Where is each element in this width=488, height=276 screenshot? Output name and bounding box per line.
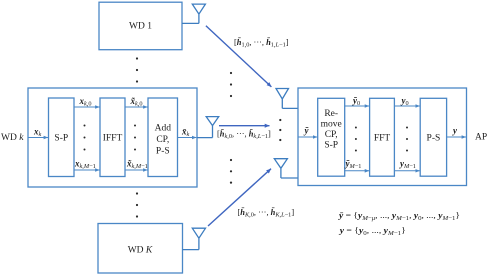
svg-text:move: move xyxy=(321,120,342,130)
svg-text:WD K: WD K xyxy=(128,246,153,256)
antenna WDK xyxy=(183,228,206,249)
block WD k outer xyxy=(28,88,197,187)
svg-text:[h̄k,0, ···, h̄k,L−1]: [h̄k,0, ···, h̄k,L−1] xyxy=(217,129,271,140)
wire S-P to IFFT top xyxy=(74,106,100,108)
svg-text:xk,M−1: xk,M−1 xyxy=(74,159,96,171)
dots between WD1 and WDk box xyxy=(136,57,138,82)
svg-text:xk: xk xyxy=(33,127,42,139)
wire IFFT to AddCP bottom xyxy=(125,169,148,171)
antenna AP top xyxy=(276,89,298,109)
svg-text:[h̄K,0, ···, h̄K,L−1]: [h̄K,0, ···, h̄K,L−1] xyxy=(238,207,295,218)
block P-S xyxy=(420,98,446,176)
dots between WDk box and WDK xyxy=(136,192,138,217)
wire S-P to IFFT bottom xyxy=(74,169,100,171)
svg-text:S-P: S-P xyxy=(324,141,338,151)
svg-text:FFT: FFT xyxy=(374,134,391,144)
svg-text:x̄k: x̄k xyxy=(181,127,190,139)
block AP outer xyxy=(298,88,467,186)
svg-text:ȳM−1: ȳM−1 xyxy=(345,158,362,170)
wire channel hK (diagonal arrow WDK to AP) xyxy=(208,169,271,226)
svg-text:AP: AP xyxy=(475,133,487,143)
wire xk input arrow xyxy=(28,137,48,139)
block IFFT xyxy=(100,98,125,177)
svg-text:xk,0: xk,0 xyxy=(79,96,92,108)
dots between channel h1 and hk xyxy=(230,72,232,97)
svg-text:y: y xyxy=(452,126,458,136)
svg-text:CP,: CP, xyxy=(325,130,338,140)
antenna AP bottom xyxy=(274,159,298,178)
dots RemoveCP to FFT xyxy=(355,127,357,152)
block FFT xyxy=(370,98,395,176)
svg-text:CP,: CP, xyxy=(156,135,169,145)
antenna WD1 xyxy=(182,4,205,23)
svg-text:P-S: P-S xyxy=(427,134,441,144)
block WD 1 xyxy=(99,2,182,50)
wire channel hk (horizontal arrow) xyxy=(219,125,270,127)
svg-text:x̃k,0: x̃k,0 xyxy=(130,96,143,108)
dots FFT to P-S xyxy=(406,127,408,152)
svg-text:yM−1: yM−1 xyxy=(399,158,416,170)
dots IFFT to AddCP xyxy=(134,125,136,151)
svg-text:Re-: Re- xyxy=(324,109,338,119)
wire ybar input arrow xyxy=(298,136,317,138)
wire channel h1 (diagonal arrow WD1 to AP) xyxy=(206,26,272,87)
block Add CP P-S xyxy=(148,98,178,177)
svg-text:Add: Add xyxy=(155,124,172,134)
wire IFFT to AddCP top xyxy=(125,106,148,108)
wire RemoveCP to FFT bottom xyxy=(345,170,369,172)
svg-text:ȳ = {yM−μ, ..., yM−1, y0, ...: ȳ = {yM−μ, ..., yM−1, y0, ..., yM−1} xyxy=(338,211,460,222)
block S-P xyxy=(49,98,75,177)
svg-text:IFFT: IFFT xyxy=(103,134,123,144)
svg-text:WD k: WD k xyxy=(1,133,24,143)
dots between channel hk and hK xyxy=(230,159,232,184)
wire FFT to P-S top xyxy=(394,105,419,107)
svg-text:S-P: S-P xyxy=(54,134,68,144)
dots between AP antennas xyxy=(279,119,281,141)
svg-text:WD 1: WD 1 xyxy=(129,22,152,32)
wire xk out arrow xyxy=(178,137,197,139)
svg-text:y = {y0, ..., yM−1}: y = {y0, ..., yM−1} xyxy=(339,227,406,237)
block Remove CP S-P xyxy=(318,98,345,176)
svg-text:x̃k,M−1: x̃k,M−1 xyxy=(126,159,148,171)
svg-text:ȳ0: ȳ0 xyxy=(352,95,360,107)
svg-text:ȳ: ȳ xyxy=(304,126,310,136)
wire y output arrow xyxy=(447,136,466,138)
svg-text:[h̄1,0, ···, h̄1,L−1]: [h̄1,0, ···, h̄1,L−1] xyxy=(234,37,289,48)
wire FFT to P-S bottom xyxy=(394,170,419,172)
svg-text:P-S: P-S xyxy=(156,147,170,157)
dots S-P to IFFT xyxy=(84,125,86,151)
wire RemoveCP to FFT top xyxy=(345,105,369,107)
svg-text:y0: y0 xyxy=(401,95,409,107)
block WD K xyxy=(98,224,183,274)
antenna WDk xyxy=(197,117,219,138)
